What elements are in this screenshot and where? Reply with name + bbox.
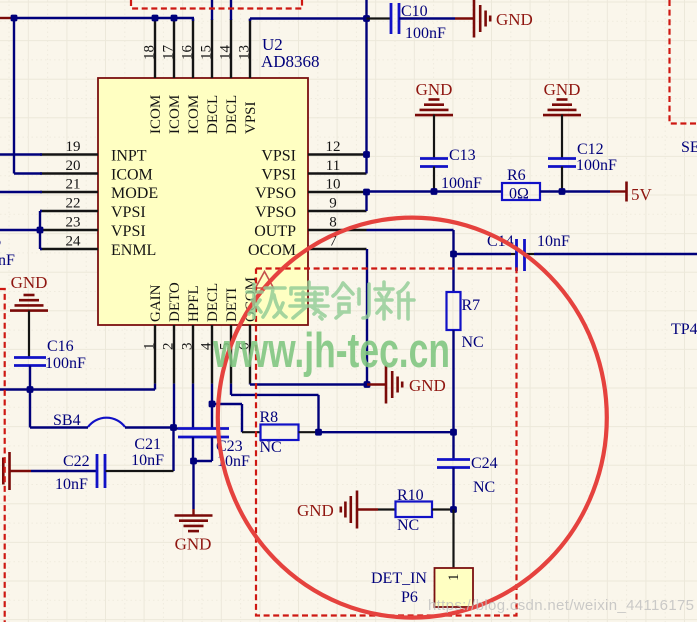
svg-text:100nF: 100nF bbox=[405, 25, 446, 42]
pin 22 VPSI (left) bbox=[40, 210, 98, 212]
node: pin23 junction bbox=[37, 227, 44, 234]
svg-text:20: 20 bbox=[66, 158, 81, 174]
svg-text:14: 14 bbox=[218, 45, 234, 61]
capacitor C24 NC bbox=[452, 432, 454, 459]
wire: DETO node down to C22 bbox=[172, 428, 174, 472]
wire: pin5 DETI over and down bbox=[230, 384, 232, 395]
capacitor C22 10nF bbox=[31, 470, 97, 472]
ground symbol bbox=[175, 514, 213, 517]
svg-text:11: 11 bbox=[326, 158, 340, 174]
resistor R10 bbox=[396, 502, 433, 518]
resistor R7 NC bbox=[447, 292, 461, 330]
pin 16 ICOM (top) bbox=[192, 19, 194, 78]
ground symbol bbox=[24, 294, 35, 297]
svg-text:0Ω: 0Ω bbox=[509, 186, 529, 203]
svg-text:5V: 5V bbox=[631, 185, 653, 204]
svg-text:DECL: DECL bbox=[224, 95, 240, 134]
svg-text:17: 17 bbox=[161, 45, 177, 61]
svg-text:19: 19 bbox=[66, 139, 81, 155]
watermark chinese characters bbox=[247, 284, 262, 318]
svg-text:VPSI: VPSI bbox=[243, 101, 259, 134]
capacitor C10 100nF bbox=[367, 17, 392, 19]
node: OCOM ground junction bbox=[364, 381, 371, 388]
wire: top-left power stub bbox=[0, 17, 12, 19]
node: pin18 junction bbox=[152, 15, 159, 22]
node: R7 bottom junction bbox=[450, 429, 457, 436]
svg-text:C24: C24 bbox=[471, 455, 498, 472]
svg-text:ICOM: ICOM bbox=[167, 95, 183, 134]
svg-text:10: 10 bbox=[326, 177, 341, 193]
svg-text:NC: NC bbox=[462, 334, 484, 351]
wire: VPSO rail to R6 bbox=[367, 190, 503, 192]
svg-text:9: 9 bbox=[329, 196, 337, 212]
pin 12 VPSI (right) bbox=[308, 153, 367, 155]
pin 19 INPT (left) bbox=[40, 153, 98, 155]
wire: C14 output to right edge bbox=[534, 253, 697, 255]
dashed region box (top) bbox=[131, 0, 302, 9]
svg-text:HPFL: HPFL bbox=[186, 285, 202, 322]
svg-text:DETO: DETO bbox=[167, 282, 183, 322]
svg-text:10nF: 10nF bbox=[537, 233, 570, 250]
svg-text:VPSO: VPSO bbox=[255, 185, 296, 202]
svg-text:VPSO: VPSO bbox=[255, 204, 296, 221]
svg-text:VPSI: VPSI bbox=[111, 223, 146, 240]
capacitor C13 100nF bbox=[420, 157, 448, 160]
svg-text:VPSI: VPSI bbox=[261, 167, 296, 184]
svg-text:C10: C10 bbox=[401, 3, 428, 20]
resistor R8 bbox=[261, 425, 299, 441]
annotation circle bbox=[218, 218, 607, 618]
svg-text:AD8368: AD8368 bbox=[261, 52, 320, 71]
svg-text:VPSI: VPSI bbox=[261, 148, 296, 165]
svg-text:P6: P6 bbox=[401, 589, 418, 606]
node: pin12 junction bbox=[363, 151, 370, 158]
svg-text:R6: R6 bbox=[507, 167, 526, 184]
capacitor C12 100nF bbox=[548, 157, 576, 160]
pin 3 HPFL (bottom) bbox=[192, 325, 194, 384]
node: C16 junction on GAIN wire bbox=[27, 386, 34, 393]
svg-text:MODE: MODE bbox=[111, 185, 158, 202]
node: C13 rail junction bbox=[431, 188, 438, 195]
power port 5V bbox=[625, 182, 628, 202]
svg-text:10nF: 10nF bbox=[131, 452, 164, 469]
ground symbol bbox=[557, 98, 568, 101]
svg-text:16: 16 bbox=[180, 45, 196, 61]
ground symbol bbox=[356, 491, 359, 529]
wire: into pin 20 bbox=[14, 172, 42, 174]
ground symbol bbox=[8, 452, 11, 490]
pin 13 VPSI (top) bbox=[249, 19, 251, 78]
svg-text:R10: R10 bbox=[397, 487, 424, 504]
svg-text:13: 13 bbox=[237, 45, 253, 60]
capacitor C21 10nF (left) + C23 10nF (right), shared plates bbox=[174, 427, 179, 429]
svg-text:GND: GND bbox=[544, 80, 581, 99]
wire: net into pin23 from left bbox=[0, 229, 40, 231]
svg-text:R7: R7 bbox=[462, 297, 481, 314]
svg-text:ENML: ENML bbox=[111, 242, 156, 259]
svg-text:C12: C12 bbox=[577, 141, 604, 158]
op-amp U2 AD8368 body bbox=[98, 78, 308, 325]
svg-text:VPSI: VPSI bbox=[111, 204, 146, 221]
wire: pin3 HPFL down to cap plate bbox=[192, 384, 194, 429]
capacitor C14 10nF bbox=[454, 253, 512, 255]
node: pin17 junction bbox=[171, 15, 178, 22]
wire: SB4 to DETO node bbox=[125, 426, 174, 428]
wire: top horizontal bus to pins 18/17/16 bbox=[12, 17, 194, 19]
svg-text:SEL: SEL bbox=[681, 139, 697, 156]
svg-text:nF: nF bbox=[0, 252, 15, 269]
svg-text:15: 15 bbox=[199, 45, 215, 60]
svg-text:C16: C16 bbox=[47, 338, 74, 355]
pin 23 VPSI (left) bbox=[40, 229, 98, 231]
pin 4 DECL (bottom) bbox=[211, 325, 213, 384]
svg-text:10nF: 10nF bbox=[55, 476, 88, 493]
svg-text:C13: C13 bbox=[449, 147, 476, 164]
svg-text:C22: C22 bbox=[63, 453, 90, 470]
svg-text:ICOM: ICOM bbox=[186, 95, 202, 134]
svg-text:GND: GND bbox=[297, 501, 334, 520]
svg-text:GND: GND bbox=[409, 376, 446, 395]
svg-text:100nF: 100nF bbox=[576, 157, 617, 174]
pin 17 ICOM (top) bbox=[173, 19, 175, 78]
pin 20 ICOM (left) bbox=[40, 172, 98, 174]
wire: pin21 MODE from left bbox=[0, 191, 42, 193]
node: OUTP junction bbox=[450, 251, 457, 258]
svg-text:NC: NC bbox=[397, 517, 419, 534]
wire: pin4 DECL down to cap plate bbox=[211, 384, 213, 429]
node: top-left junction bbox=[11, 15, 18, 22]
dashed region box (left) bbox=[0, 289, 5, 622]
resistor R6 bbox=[502, 183, 540, 200]
pin 10 VPSO (right) bbox=[308, 191, 367, 193]
svg-text:21: 21 bbox=[66, 177, 81, 193]
wire: pin19 INPT from left bbox=[0, 153, 42, 155]
wire: R6 to 5V bbox=[540, 190, 610, 192]
svg-text:SB4: SB4 bbox=[53, 412, 81, 429]
node: pin4 junction to R8 bbox=[209, 401, 216, 408]
pin 24 ENML (left) bbox=[40, 248, 98, 250]
wire: pin7 OCOM down bbox=[366, 249, 368, 385]
svg-text:ICOM: ICOM bbox=[148, 95, 164, 134]
wire: caps to GND bbox=[192, 461, 194, 509]
pin 5 DETI (bottom) bbox=[230, 325, 232, 384]
solder bridge SB4 bbox=[88, 418, 125, 427]
wire: tie pins 10-9 bbox=[365, 192, 367, 211]
wire: pin6 OCOM over to junction bbox=[249, 382, 251, 385]
pin 11 VPSI (right) bbox=[308, 172, 367, 174]
pin 18 ICOM (top) bbox=[154, 19, 156, 78]
dashed region box (center, highlighted area) bbox=[256, 269, 517, 616]
wire: R8 node to detector node bbox=[319, 431, 454, 433]
connector P6 DET_IN bbox=[435, 568, 474, 607]
node: DETO junction bbox=[170, 424, 177, 431]
svg-text:GND: GND bbox=[11, 273, 48, 292]
svg-text:DET_IN: DET_IN bbox=[371, 570, 427, 587]
svg-text:18: 18 bbox=[142, 45, 158, 60]
svg-text:2: 2 bbox=[161, 343, 177, 351]
no-ERC marker triangle bbox=[256, 272, 274, 289]
pin 21 MODE (left) bbox=[40, 191, 98, 193]
ground symbol bbox=[385, 366, 388, 404]
svg-text:TP4: TP4 bbox=[671, 321, 697, 338]
wire: right vertical rail x=366.5 bbox=[365, 0, 367, 174]
pin 1 GAIN (bottom) bbox=[154, 325, 156, 384]
ground symbol bbox=[473, 0, 476, 38]
pin 15 DECL (top) bbox=[211, 19, 213, 78]
wire: left vertical from top junction bbox=[13, 17, 15, 174]
svg-text:GND: GND bbox=[496, 10, 533, 29]
svg-text:6: 6 bbox=[0, 233, 1, 250]
svg-text:www.jh-tec.cn: www.jh-tec.cn bbox=[212, 324, 450, 378]
node: R8 right junction bbox=[315, 429, 322, 436]
pin 8 OUTP (right) bbox=[308, 229, 367, 231]
svg-text:8: 8 bbox=[329, 215, 337, 231]
capacitor C16 100nF bbox=[14, 356, 46, 359]
ground symbol bbox=[429, 98, 440, 101]
svg-text:R8: R8 bbox=[260, 409, 279, 426]
pin 9 VPSO (right) bbox=[308, 210, 367, 212]
wire: tie pins 22-24 bbox=[39, 211, 41, 249]
svg-text:GND: GND bbox=[175, 535, 212, 554]
svg-text:23: 23 bbox=[66, 215, 81, 231]
wire: pin13 to C10 rail bbox=[249, 19, 251, 22]
node: C10 tap junction bbox=[363, 15, 370, 22]
wire: pin1 GAIN to left bbox=[0, 388, 155, 390]
pin 7 OCOM (right) bbox=[308, 248, 367, 250]
svg-text:NC: NC bbox=[473, 479, 495, 496]
svg-text:C21: C21 bbox=[134, 436, 161, 453]
wire: node down to R7 bbox=[452, 254, 454, 292]
pin 2 DETO (bottom) bbox=[173, 325, 175, 384]
wire: OUTP pin8 to node bbox=[367, 229, 454, 231]
wire: down to connector bbox=[452, 510, 454, 569]
dashed region box (top right) bbox=[670, 0, 697, 124]
svg-text:24: 24 bbox=[66, 234, 82, 250]
svg-text:INPT: INPT bbox=[111, 148, 147, 165]
svg-text:22: 22 bbox=[66, 196, 81, 212]
pin 14 DECL (top) bbox=[230, 19, 232, 78]
svg-text:100nF: 100nF bbox=[45, 355, 86, 372]
svg-text:DECL: DECL bbox=[205, 95, 221, 134]
svg-text:OUTP: OUTP bbox=[254, 223, 296, 240]
wire: pin15 from sheet top bbox=[211, 0, 213, 20]
svg-text:GND: GND bbox=[416, 80, 453, 99]
svg-text:https://blog.csdn.net/weixin_4: https://blog.csdn.net/weixin_44116175 bbox=[428, 597, 694, 614]
svg-text:1: 1 bbox=[142, 343, 158, 351]
node: pin10 junction bbox=[363, 189, 370, 196]
svg-text:DECL: DECL bbox=[205, 283, 221, 322]
svg-text:1: 1 bbox=[446, 574, 462, 582]
svg-text:100nF: 100nF bbox=[441, 175, 482, 192]
pin 6 OCOM (bottom) bbox=[249, 325, 251, 384]
svg-text:OCOM: OCOM bbox=[248, 242, 296, 259]
svg-text:12: 12 bbox=[326, 139, 341, 155]
svg-text:GAIN: GAIN bbox=[148, 284, 164, 322]
svg-text:DETI: DETI bbox=[224, 288, 240, 322]
wire: R7 to bottom node bbox=[452, 330, 454, 432]
svg-text:NC: NC bbox=[260, 439, 282, 456]
node: R10 junction bbox=[450, 506, 457, 513]
wire: C16 branch to SB4 bbox=[30, 426, 88, 428]
node: C12 rail junction bbox=[559, 188, 566, 195]
wire: pin4 node to R8 bbox=[212, 403, 242, 405]
wire: pin14 from sheet top bbox=[230, 0, 232, 20]
svg-text:3: 3 bbox=[180, 343, 196, 351]
node: cap bottom junction bbox=[190, 458, 197, 465]
wire: pin2 DETO down bbox=[173, 384, 175, 428]
svg-text:ICOM: ICOM bbox=[111, 167, 153, 184]
